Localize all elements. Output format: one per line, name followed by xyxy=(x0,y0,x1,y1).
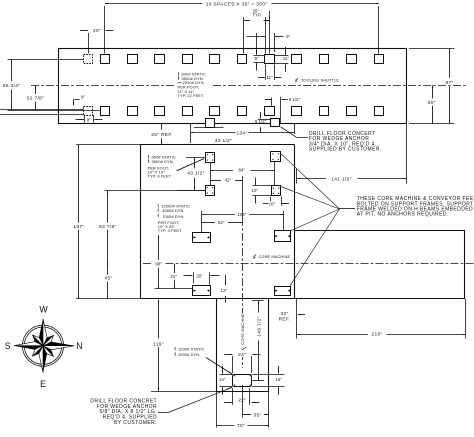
svg-text:93 7/8″: 93 7/8″ xyxy=(99,224,117,230)
svg-text:50″: 50″ xyxy=(428,100,436,106)
dim 14 xyxy=(220,374,233,376)
svg-text:8 1/2″: 8 1/2″ xyxy=(255,119,267,124)
svg-text:218″: 218″ xyxy=(371,332,382,338)
svg-text:45″: 45″ xyxy=(104,276,112,282)
conveyor foot row D right xyxy=(275,287,291,296)
svg-text:1000# DYN.: 1000# DYN. xyxy=(178,352,200,357)
dim 50 xyxy=(432,85,434,98)
svg-text:104″: 104″ xyxy=(238,212,247,217)
compass rose xyxy=(14,319,75,373)
svg-text:20″: 20″ xyxy=(93,28,101,34)
svg-text:W: W xyxy=(39,304,48,314)
shuttle load note text xyxy=(178,72,180,76)
dim 197 xyxy=(76,144,141,146)
dim 218 xyxy=(296,299,298,339)
svg-text:32″: 32″ xyxy=(280,311,288,317)
svg-text:35″: 35″ xyxy=(253,413,261,419)
dim 42 xyxy=(210,180,221,182)
core machine bottom column xyxy=(216,299,218,392)
svg-text:24″: 24″ xyxy=(238,352,246,358)
dim 68 xyxy=(158,235,160,259)
dim 34 xyxy=(174,264,176,273)
dim 22 xyxy=(232,388,234,405)
dim 16 xyxy=(252,374,285,376)
dim 134 xyxy=(191,132,236,134)
svg-text:70″: 70″ xyxy=(237,423,245,429)
dim 8 (lower) xyxy=(76,119,84,121)
svg-text:149 1/2″: 149 1/2″ xyxy=(257,316,263,337)
dim 32 7/8 xyxy=(35,85,37,94)
dim 45 xyxy=(107,264,109,275)
svg-text:1200# STATIC: 1200# STATIC xyxy=(178,346,205,351)
dim 84 xyxy=(210,163,212,185)
svg-text:11″: 11″ xyxy=(266,75,273,80)
shuttle feet bottom row xyxy=(84,107,93,116)
dim 43 1/2 (row A to row B) xyxy=(186,157,205,159)
dim 9 (top) xyxy=(247,36,265,38)
svg-text:TOOLING SHUTTLE: TOOLING SHUTTLE xyxy=(301,78,339,83)
svg-text:34″: 34″ xyxy=(170,274,177,279)
dim 55 3/4 xyxy=(11,60,13,81)
leaders to core/conveyor feet xyxy=(340,208,356,210)
dim 11 (pad height) xyxy=(275,55,289,57)
svg-text:4000# DYN.: 4000# DYN. xyxy=(162,208,184,213)
svg-text:14″: 14″ xyxy=(219,377,226,382)
svg-text:8″: 8″ xyxy=(87,117,91,122)
tooling shuttle plate outline xyxy=(59,49,407,124)
svg-text:9″: 9″ xyxy=(255,56,259,61)
svg-text:BY CUSTOMER.: BY CUSTOMER. xyxy=(114,420,157,426)
svg-text:84″: 84″ xyxy=(238,168,245,173)
svg-text:55 3/4″: 55 3/4″ xyxy=(3,83,21,89)
conveyor pit outline (right) xyxy=(295,230,466,232)
dim 141 1/2 xyxy=(296,169,298,184)
dim 26 REF xyxy=(161,124,163,130)
dim 70 xyxy=(216,425,235,427)
dim 104 xyxy=(201,211,203,232)
svg-text:12″: 12″ xyxy=(221,288,228,293)
svg-text:10″: 10″ xyxy=(269,202,276,207)
witness line under anchor square A1 xyxy=(194,127,224,129)
dim 93 7/8 xyxy=(105,190,206,192)
svg-text:TYP.: TYP. xyxy=(252,13,261,18)
svg-text:10 SPACES X 35″ = 350″: 10 SPACES X 35″ = 350″ xyxy=(206,2,268,8)
anchor square A1 (hanging, 134 ref) xyxy=(206,119,215,128)
left witness lines xyxy=(8,59,85,61)
svg-text:134″: 134″ xyxy=(236,131,247,137)
svg-text:N: N xyxy=(76,341,82,351)
svg-text:TYP. 22 FEET: TYP. 22 FEET xyxy=(178,93,205,98)
core machine pit outline xyxy=(140,145,142,300)
dim 8 1/2 (left of anchor A2) xyxy=(258,119,271,121)
pit bottom edge xyxy=(141,298,465,300)
svg-text:16″: 16″ xyxy=(276,377,283,382)
dim 20 (row D foot) xyxy=(184,275,193,277)
core load note B xyxy=(157,204,159,208)
dim 9 (left of pad, vertical) xyxy=(254,55,265,57)
leader from note A to row A pad xyxy=(177,159,205,171)
svg-text:S: S xyxy=(5,341,11,351)
svg-text:CORE MACHINE: CORE MACHINE xyxy=(240,313,245,345)
dim 149 1/2 xyxy=(252,300,264,302)
leader note3 to bottom foot xyxy=(158,390,226,413)
svg-text:11″: 11″ xyxy=(283,56,290,61)
svg-text:3500# DYN.: 3500# DYN. xyxy=(152,159,174,164)
svg-text:9″: 9″ xyxy=(286,34,290,39)
core load note A xyxy=(148,155,150,159)
core foot row C left (10x20) xyxy=(193,233,211,243)
leader note4 to bottom foot xyxy=(206,358,232,375)
dim 10 SPACES X 35 = 350 xyxy=(105,3,202,5)
leader to anchor square A2 xyxy=(297,137,308,139)
bottom foot (14x24) xyxy=(233,375,252,387)
svg-text:26″ REF.: 26″ REF. xyxy=(151,132,173,138)
svg-text:197″: 197″ xyxy=(73,224,84,230)
svg-text:CORE MACHINE: CORE MACHINE xyxy=(259,254,291,259)
shuttle feet top row (11x11 pads) xyxy=(84,55,93,64)
dim 52 xyxy=(201,222,214,224)
dim 12 (row D) xyxy=(225,275,227,286)
svg-text:52″: 52″ xyxy=(218,220,225,225)
svg-text:7000# DYN.: 7000# DYN. xyxy=(162,214,184,219)
dim 97 (right) xyxy=(409,48,455,50)
svg-text:43 1/2″: 43 1/2″ xyxy=(215,138,233,144)
svg-text:10″: 10″ xyxy=(252,188,259,193)
dim 10 (pad height, vertical) xyxy=(253,185,271,187)
svg-text:20″: 20″ xyxy=(196,273,203,278)
core machine horizontal centerline xyxy=(143,263,152,265)
dim 35 (bottom) xyxy=(243,414,251,416)
dim 11 (pad width, below) xyxy=(265,65,267,81)
dim 24 xyxy=(232,356,234,373)
svg-text:8 1/2″: 8 1/2″ xyxy=(289,97,301,102)
svg-text:SUPPLIED BY CUSTOMER.: SUPPLIED BY CUSTOMER. xyxy=(309,147,382,153)
svg-text:TYP. 6 FEET: TYP. 6 FEET xyxy=(148,173,172,178)
core feet row A xyxy=(206,153,215,163)
note: 1200# static xyxy=(174,347,176,351)
conveyor foot row C right xyxy=(275,231,291,242)
svg-text:REF.: REF. xyxy=(279,316,291,322)
svg-text:119″: 119″ xyxy=(153,341,164,347)
svg-text:42″: 42″ xyxy=(225,178,232,183)
svg-text:E: E xyxy=(40,379,46,389)
svg-text:8″: 8″ xyxy=(81,94,85,99)
core foot row D left xyxy=(193,286,211,296)
dim 119 xyxy=(158,300,160,339)
svg-text:TYP. 4 FEET: TYP. 4 FEET xyxy=(158,228,182,233)
svg-text:43 1/2″: 43 1/2″ xyxy=(187,171,205,177)
svg-text:141 1/2″: 141 1/2″ xyxy=(331,176,352,182)
svg-text:68″: 68″ xyxy=(156,262,163,267)
core feet row B xyxy=(206,186,215,196)
svg-text:97″: 97″ xyxy=(446,80,454,86)
core machine vertical centerline xyxy=(242,176,244,218)
dim 8 1/2 (upper) xyxy=(280,97,282,124)
dim 10 (pad width, horizontal) xyxy=(270,197,272,206)
svg-text:32 7/8″: 32 7/8″ xyxy=(27,96,45,102)
svg-text:AT PIT. NO ANCHORS REQUIRED.: AT PIT. NO ANCHORS REQUIRED. xyxy=(357,212,449,218)
shuttle centerline xyxy=(31,85,176,87)
anchor square A2 (hanging, 8 1/2 ref) xyxy=(271,119,280,127)
pit right / conveyor pit left edge xyxy=(294,145,296,300)
svg-text:22″: 22″ xyxy=(238,397,246,403)
